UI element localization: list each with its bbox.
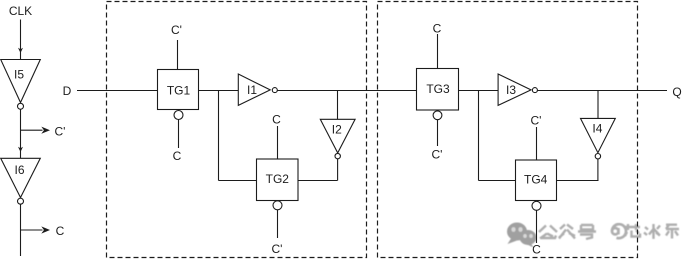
svg-text:CLK: CLK [9, 4, 32, 18]
svg-text:C: C [532, 243, 541, 257]
svg-text:TG1: TG1 [167, 84, 191, 98]
svg-text:TG2: TG2 [266, 172, 290, 186]
svg-text:C: C [272, 113, 281, 127]
svg-text:I4: I4 [592, 122, 602, 136]
svg-text:I6: I6 [14, 163, 24, 177]
svg-text:I2: I2 [332, 122, 342, 136]
svg-text:C': C' [272, 242, 283, 256]
svg-text:Q: Q [672, 85, 681, 99]
svg-text:C: C [433, 22, 442, 36]
svg-text:I5: I5 [14, 68, 24, 82]
svg-text:C': C' [55, 124, 66, 138]
svg-text:C: C [173, 149, 182, 163]
svg-text:C': C' [171, 23, 182, 37]
svg-text:TG4: TG4 [524, 173, 548, 187]
svg-text:C': C' [531, 114, 542, 128]
svg-text:I1: I1 [247, 83, 257, 97]
svg-text:I3: I3 [506, 83, 516, 97]
svg-text:C: C [56, 224, 65, 238]
svg-text:TG3: TG3 [426, 82, 450, 96]
svg-text:D: D [63, 84, 72, 98]
svg-text:C': C' [432, 148, 443, 162]
